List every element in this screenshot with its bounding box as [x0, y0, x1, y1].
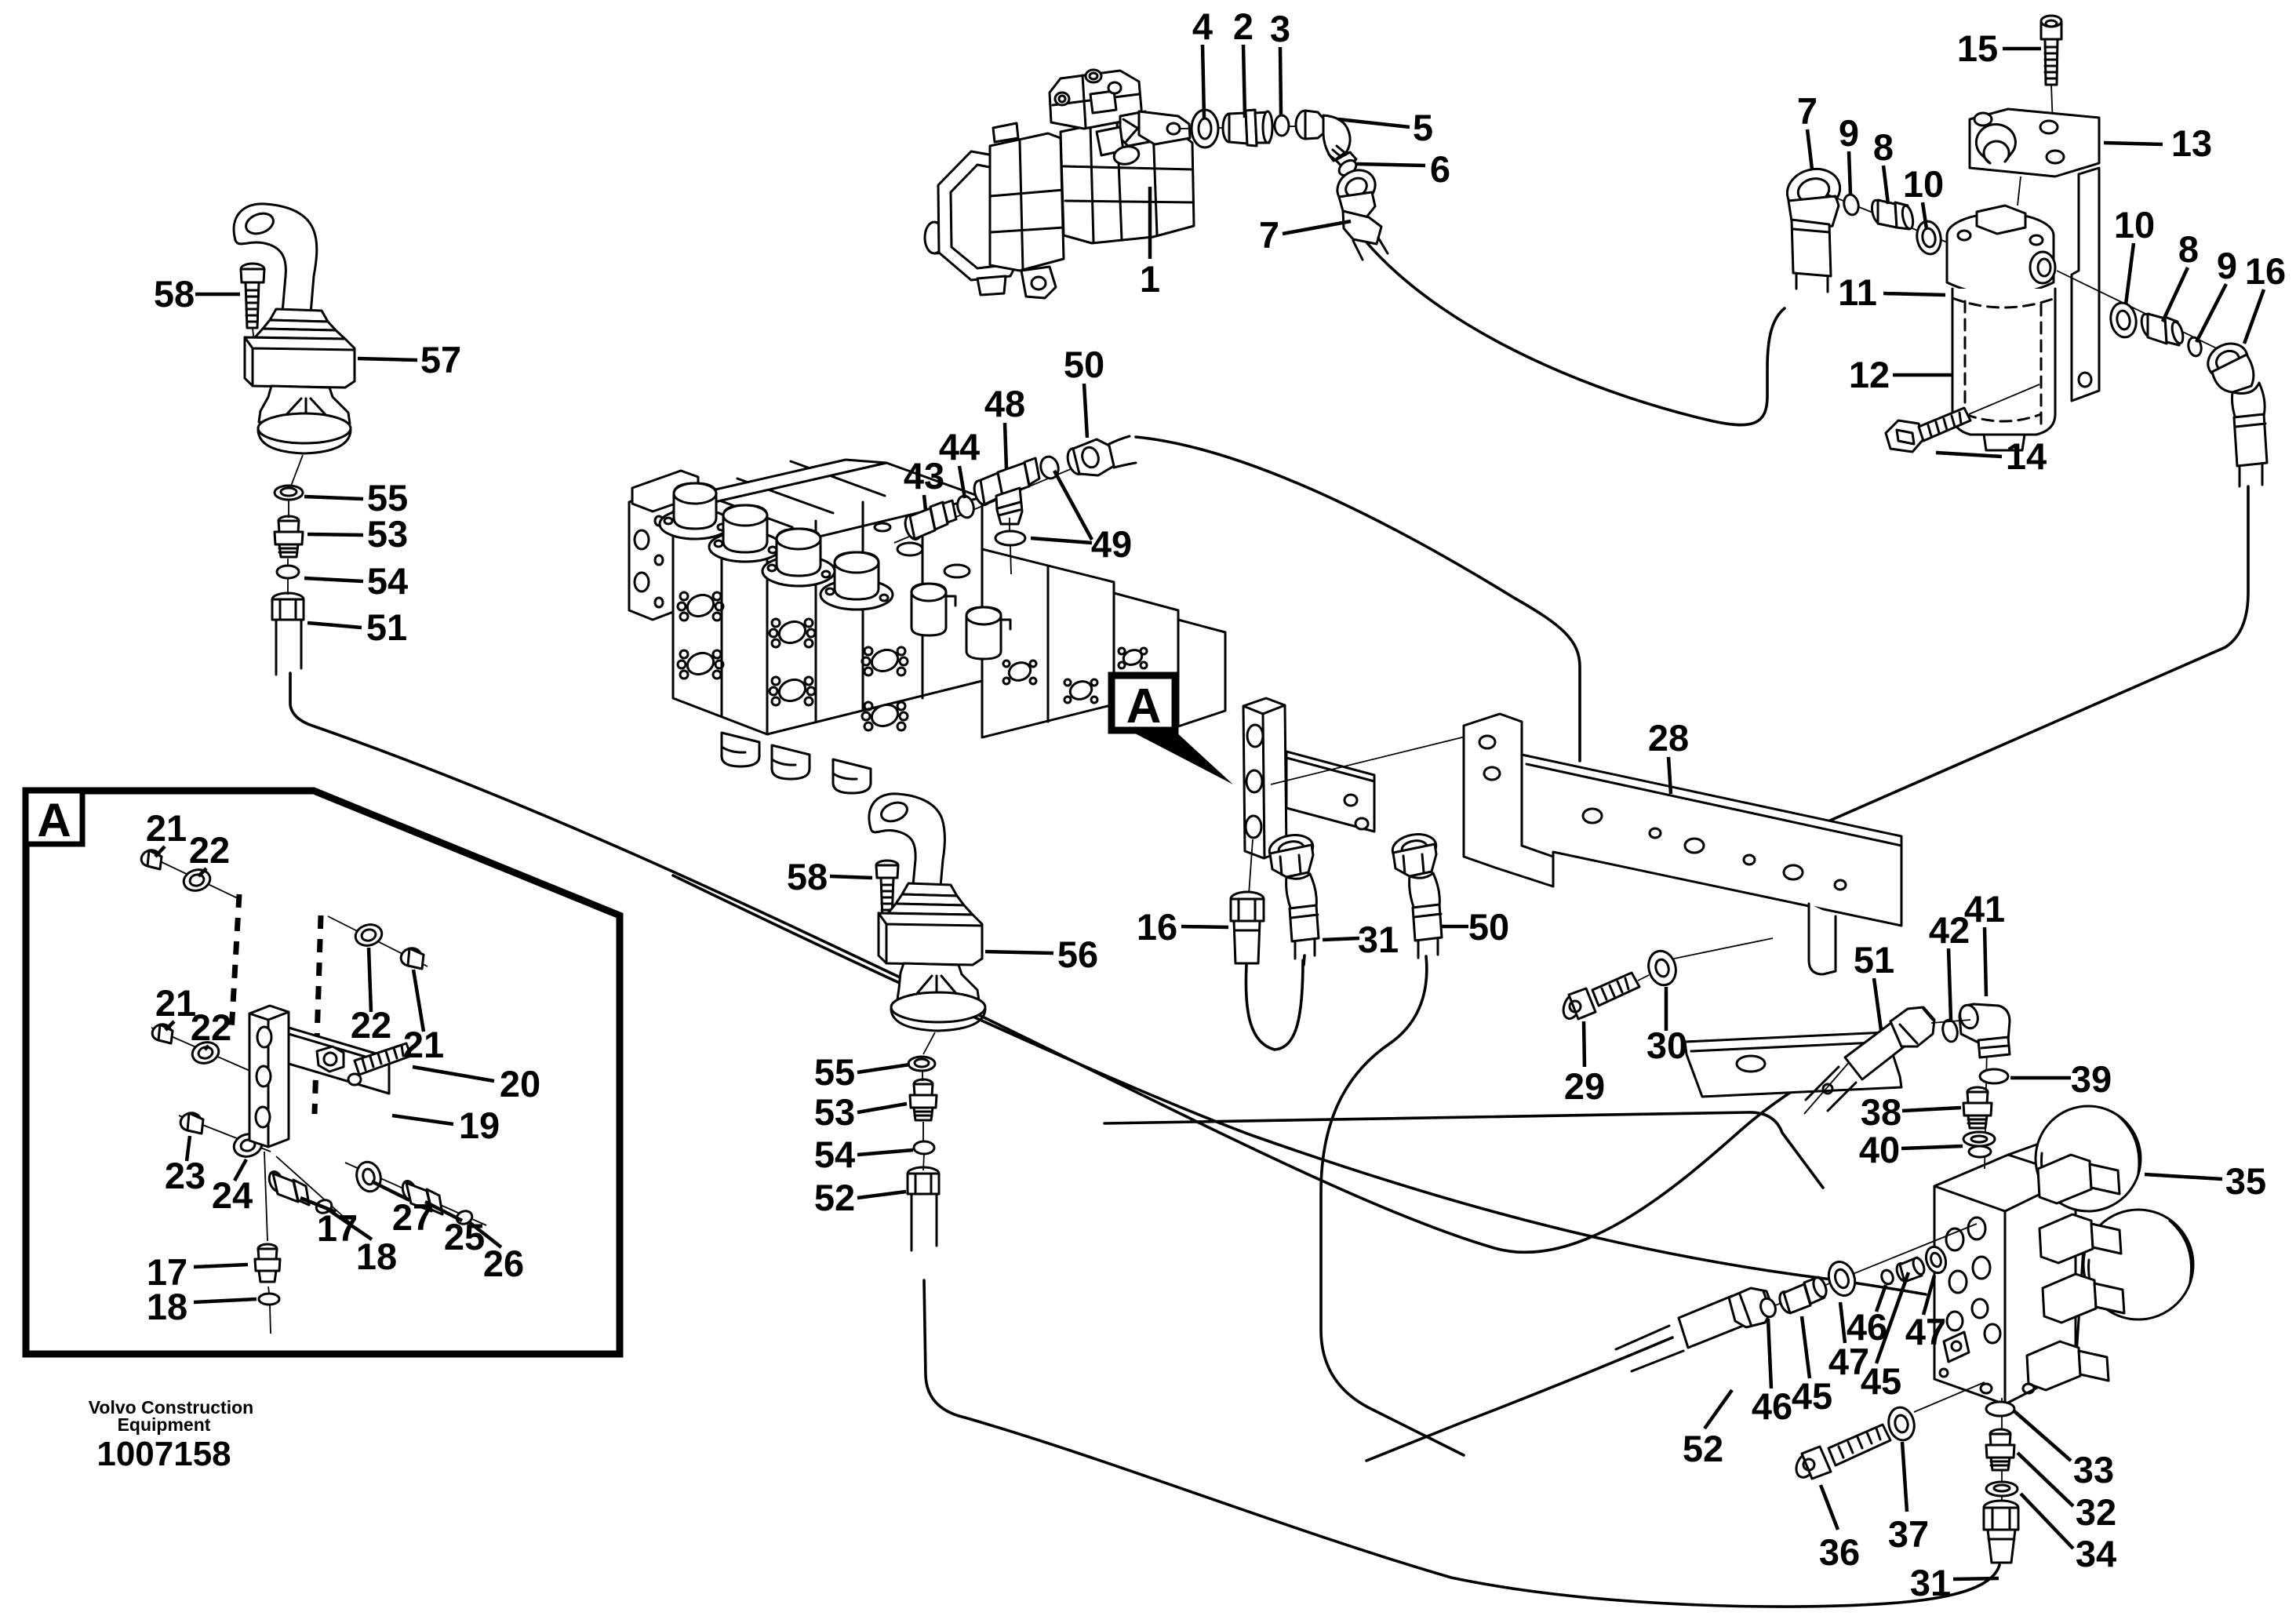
svg-text:34: 34	[2076, 1533, 2116, 1574]
hose 51 long	[290, 673, 1847, 1252]
leader 57	[358, 359, 417, 360]
axis set2	[151, 1028, 259, 1075]
bracket 28 bar	[1522, 755, 1901, 926]
svg-text:8: 8	[1873, 126, 1894, 168]
svg-text:A: A	[1126, 679, 1162, 733]
detail box A square	[26, 791, 82, 846]
joystick 57 boot	[255, 309, 345, 339]
svg-text:57: 57	[420, 339, 461, 380]
hose 52 right short	[1366, 1338, 1672, 1461]
nipple 45 a	[1777, 1276, 1828, 1315]
svg-text:16: 16	[1137, 906, 1177, 948]
leader 55 center	[857, 1065, 910, 1072]
o-ring 33	[1986, 1402, 2014, 1416]
leader 46 lower	[1768, 1319, 1771, 1389]
leader 10 left	[1923, 202, 1927, 229]
o-ring 18 a	[315, 1198, 333, 1215]
svg-text:1: 1	[1140, 258, 1160, 300]
leader 4	[1203, 45, 1204, 118]
hose 16 blocka	[1246, 960, 1303, 1050]
PUMP	[925, 70, 1388, 298]
svg-text:29: 29	[1564, 1065, 1605, 1107]
axis bottom series	[2001, 1398, 2003, 1506]
leader 40	[1901, 1146, 1963, 1148]
nipple 45 b	[1894, 1257, 1927, 1283]
leader block A to bracket hole	[1271, 736, 1468, 784]
fitting 31 valve	[1984, 1501, 2018, 1563]
leader 31 blocka	[1323, 938, 1359, 940]
leader 18 a	[327, 1209, 372, 1239]
valve bank back row	[632, 460, 886, 511]
port cluster 1	[678, 591, 723, 621]
tube 51 right	[1804, 1007, 1934, 1114]
svg-text:21: 21	[146, 807, 187, 849]
leader 49b	[1031, 538, 1092, 543]
leader 26	[468, 1221, 501, 1247]
joystick 57 handle hole	[243, 210, 276, 238]
plug 21 c	[398, 946, 424, 969]
washer 10 left	[1915, 220, 1944, 257]
o-ring 6	[1337, 158, 1359, 179]
washer 22 c	[353, 922, 384, 948]
bracket 13 stem	[2018, 177, 2021, 206]
svg-text:31: 31	[1910, 1562, 1951, 1603]
nipple 43	[902, 500, 956, 541]
leader 16 right	[2244, 289, 2264, 344]
elbow 50 blocka	[1390, 831, 1442, 958]
leader 21 c	[413, 970, 424, 1032]
port cluster 6	[862, 701, 908, 730]
elbow 16 coupling	[2234, 414, 2267, 466]
svg-text:23: 23	[165, 1155, 206, 1196]
washer 47 a	[1825, 1258, 1859, 1299]
valve block 35 top stub	[2008, 1139, 2118, 1177]
bottom cylinder 2	[772, 745, 810, 779]
axis tee row	[894, 455, 1104, 543]
tee 48	[971, 458, 1039, 524]
svg-text:53: 53	[367, 513, 408, 555]
leader 1	[1148, 187, 1152, 259]
svg-text:28: 28	[1648, 717, 1689, 759]
pump 1 mid body	[990, 123, 1064, 271]
bracket 13 hole b	[2040, 121, 2058, 133]
o-ring 44	[955, 494, 977, 519]
leader 7	[1283, 221, 1351, 234]
nipple 8 right	[2139, 313, 2185, 345]
svg-text:14: 14	[2006, 435, 2047, 477]
hose 16 long	[1812, 486, 2248, 828]
washer 55 center	[908, 1057, 935, 1071]
svg-text:4: 4	[1192, 5, 1213, 47]
leader 8 left	[1883, 166, 1888, 204]
leader 37	[1902, 1442, 1907, 1512]
leader 10 right	[2126, 243, 2134, 304]
svg-text:A: A	[37, 794, 71, 846]
washer 10 left inner	[1921, 227, 1937, 248]
leader 5	[1338, 119, 1410, 127]
svg-text:9: 9	[1839, 112, 1859, 154]
leader 27	[372, 1181, 409, 1200]
washer 10 right inner	[2116, 310, 2131, 330]
nipple 17 b	[255, 1244, 280, 1282]
solenoid cap 4	[821, 552, 893, 610]
axis left series	[1737, 1224, 1977, 1321]
svg-text:22: 22	[191, 1006, 231, 1048]
leader 25	[425, 1202, 462, 1221]
svg-text:18: 18	[356, 1236, 397, 1277]
bolt 14	[1886, 384, 2039, 452]
axis top series	[1985, 1004, 1988, 1169]
svg-text:41: 41	[1964, 888, 2005, 930]
elbow 41	[1957, 1003, 2010, 1057]
svg-text:39: 39	[2071, 1058, 2112, 1100]
port cluster 9	[1119, 647, 1147, 668]
svg-text:1007158: 1007158	[96, 1435, 231, 1473]
plug 23	[178, 1111, 203, 1134]
joystick 56 base	[891, 992, 985, 1031]
leader 53 left	[307, 534, 363, 535]
hose 52 tube	[911, 1194, 937, 1250]
svg-text:52: 52	[1683, 1428, 1723, 1469]
svg-text:58: 58	[787, 856, 828, 897]
leader 29	[1584, 1021, 1585, 1067]
filter 11 head	[1947, 206, 2055, 295]
svg-text:32: 32	[2076, 1491, 2116, 1533]
bracket 13 hole a	[1974, 113, 1992, 126]
leader 15	[2003, 47, 2041, 51]
bolt 58 center	[876, 861, 898, 944]
svg-text:16: 16	[2245, 250, 2286, 292]
hose 52 center long	[924, 1280, 1999, 1607]
svg-text:49: 49	[1091, 523, 1132, 565]
hose 50 tee arc	[1136, 437, 1580, 761]
leader 18 b	[194, 1299, 257, 1302]
port cluster 4	[770, 676, 815, 705]
HOSES	[290, 243, 2248, 1607]
pump 1 arm	[1139, 111, 1190, 144]
block A bar	[1243, 698, 1286, 858]
svg-text:7: 7	[1797, 90, 1818, 132]
leader 21 b	[166, 1021, 174, 1030]
svg-text:10: 10	[1903, 163, 1944, 205]
platform diagonal	[673, 875, 1926, 1294]
pump 1 shaft	[925, 217, 987, 253]
svg-text:7: 7	[1259, 214, 1279, 256]
valve bank right module	[982, 549, 1114, 737]
joystick 56 boot	[888, 883, 973, 915]
o-ring 46 b	[1879, 1268, 1894, 1286]
filter 12 bowl	[1952, 289, 2055, 450]
callout A pointer	[1135, 730, 1233, 784]
VALVE35	[1616, 1003, 2193, 1563]
leader 33	[2014, 1411, 2071, 1461]
svg-text:47: 47	[1905, 1311, 1946, 1352]
leader 43	[924, 495, 926, 510]
plug 21 a	[139, 848, 162, 869]
hose 50 stub	[1109, 436, 1136, 468]
leader 48	[1005, 423, 1006, 469]
tube 52 right	[1616, 1288, 1773, 1371]
o-ring 54 left	[277, 566, 299, 578]
leader 2	[1243, 45, 1245, 118]
leader 35	[2145, 1174, 2222, 1179]
plug 21 b	[150, 1022, 173, 1043]
dashed plate line 1	[231, 894, 239, 1032]
svg-text:58: 58	[154, 273, 195, 315]
solenoid cartridge 4	[2027, 1341, 2109, 1390]
washer 30	[1645, 938, 1773, 988]
pump 1 top valve body	[1050, 71, 1142, 129]
leader 13	[2104, 143, 2163, 144]
joystick 57 funnel	[259, 386, 350, 424]
small cap 2	[966, 607, 1010, 659]
o-ring 54 center	[914, 1141, 934, 1154]
leader 7 filter	[1807, 129, 1812, 169]
leader 32	[2018, 1453, 2073, 1506]
svg-text:12: 12	[1849, 354, 1890, 395]
leader 9 left	[1849, 151, 1850, 195]
washer 4	[1192, 110, 1218, 147]
nipple 53 center	[910, 1079, 937, 1120]
solenoid cap 2	[709, 505, 781, 562]
axis 52 hose	[922, 1070, 924, 1170]
joystick 57 handle	[234, 204, 317, 314]
svg-text:46: 46	[1752, 1385, 1792, 1427]
svg-text:38: 38	[1861, 1091, 1901, 1133]
nut 50 tee	[1064, 439, 1114, 476]
washer 22 b	[190, 1039, 221, 1066]
washer 10 right	[2108, 301, 2138, 340]
leader 8 right	[2163, 268, 2188, 322]
svg-text:43: 43	[904, 455, 944, 497]
axis set right	[328, 916, 428, 966]
svg-text:35: 35	[2225, 1160, 2266, 1202]
assembly line under bar	[1526, 767, 1883, 874]
axis vertical block	[264, 1152, 271, 1334]
bottom cylinder 3	[833, 759, 871, 793]
joystick 56 funnel	[897, 963, 979, 1001]
axis filter right	[2057, 271, 2223, 351]
nipple 32	[1986, 1429, 2014, 1470]
bracket 13 top plate	[1970, 109, 2099, 177]
o-ring 42	[1941, 1018, 1959, 1043]
bracket 13 u-slot	[1976, 124, 2015, 163]
small cap 1	[911, 584, 955, 635]
bolt 29	[1560, 973, 1649, 1021]
elbow 7 hose stub	[1796, 275, 1828, 292]
leader 47 upper	[1923, 1276, 1934, 1315]
leader 50 blocka	[1440, 925, 1468, 929]
big cap 35 a	[2036, 1106, 2141, 1211]
svg-text:17: 17	[317, 1207, 358, 1249]
nipple 53 left	[275, 516, 303, 557]
svg-text:9: 9	[2217, 245, 2237, 286]
svg-text:45: 45	[1792, 1375, 1832, 1417]
nipple 8 left	[1870, 199, 1915, 230]
solenoid cartridge 2	[2039, 1214, 2121, 1263]
svg-text:24: 24	[212, 1174, 253, 1216]
joystick 57 base	[258, 413, 351, 453]
fitting 16 blocka	[1231, 839, 1264, 963]
leader 38	[1902, 1108, 1961, 1111]
leader 22 b	[205, 1046, 209, 1050]
joystick 56 handle	[869, 794, 945, 886]
solenoid cartridge 1	[2038, 1155, 2120, 1203]
axis set3	[179, 1116, 271, 1152]
axis 17a 18a	[276, 1156, 351, 1224]
washer 37	[1886, 1405, 1917, 1443]
axis tee bottom	[1010, 518, 1011, 574]
svg-text:55: 55	[814, 1051, 855, 1093]
FILTER	[1782, 16, 2267, 486]
leader 54 left	[304, 578, 363, 581]
valve bank back block	[629, 485, 698, 620]
nipple 17 a	[267, 1170, 309, 1205]
svg-text:53: 53	[814, 1091, 855, 1133]
axis 27 25 26	[345, 1163, 486, 1225]
leader 53 center	[857, 1104, 907, 1112]
washer 22 a	[181, 867, 213, 894]
o-ring 26	[455, 1209, 474, 1226]
elbow 16 coupling band	[2236, 424, 2265, 427]
o-ring 18 b	[259, 1294, 279, 1305]
leader 41	[1985, 927, 1986, 996]
nipple 25	[400, 1179, 442, 1214]
strap 19	[289, 1028, 389, 1094]
leader 28	[1668, 757, 1671, 794]
leader 22 a	[198, 868, 206, 876]
elbow 16 body	[2232, 383, 2265, 419]
pump 1 right body	[1061, 121, 1194, 243]
leader 49a	[1054, 471, 1092, 540]
pump 1 bottom lug	[1021, 267, 1056, 298]
leader 45 upper	[1876, 1272, 1908, 1363]
platform flat line	[1104, 1112, 1823, 1188]
leader 17 a	[300, 1198, 336, 1212]
washer 47 b	[1923, 1244, 1949, 1276]
svg-text:51: 51	[1854, 939, 1894, 981]
o-ring 46 a	[1758, 1297, 1777, 1319]
svg-text:33: 33	[2073, 1449, 2114, 1490]
washer 27	[354, 1159, 384, 1194]
hose 7 pump to filter	[1367, 243, 1785, 425]
o-ring 39	[1980, 1069, 2008, 1083]
svg-text:8: 8	[2178, 228, 2199, 270]
leader 9 right	[2196, 284, 2226, 342]
svg-text:40: 40	[1859, 1129, 1900, 1170]
svg-text:36: 36	[1819, 1531, 1860, 1573]
svg-text:22: 22	[189, 829, 230, 871]
bolt 36	[1792, 1425, 1890, 1480]
elbow 7 filter coupling	[1792, 220, 1831, 276]
o-ring 49b	[995, 531, 1025, 545]
nut 51 left	[272, 593, 304, 620]
port cluster 2	[678, 650, 723, 679]
washers 40	[1963, 1132, 1995, 1157]
elbow 7 filter coupling band	[1793, 229, 1829, 232]
valve block 35 body	[1934, 1155, 2076, 1404]
washer 34	[1986, 1482, 2018, 1496]
svg-text:3: 3	[1270, 8, 1290, 49]
pump 1 front flange	[938, 151, 1028, 295]
leader 36	[1821, 1485, 1838, 1530]
nipple 38	[1963, 1087, 1992, 1128]
leader 47 lower	[1840, 1302, 1845, 1343]
port cluster 7	[1003, 660, 1036, 684]
svg-text:45: 45	[1861, 1360, 1901, 1402]
solenoid cap 3	[762, 529, 835, 586]
leader 31 valve	[1953, 1578, 1999, 1579]
bracket 28 foot plate	[1685, 904, 1901, 1097]
axis filter left	[1828, 195, 1961, 248]
elbow 16 hose stub	[2240, 464, 2262, 486]
leader 42	[1949, 948, 1951, 1020]
svg-text:11: 11	[1838, 271, 1877, 313]
dashed plate line 2	[315, 915, 321, 1114]
leader 58 center	[830, 876, 872, 878]
svg-text:2: 2	[1233, 5, 1254, 47]
elbow 31 blocka	[1267, 832, 1319, 959]
hose 31 blocka	[1304, 955, 1304, 965]
leader 30	[1665, 987, 1668, 1031]
leader 50 tee	[1084, 384, 1087, 438]
BLOCKA	[1112, 675, 1883, 1455]
washer 24	[231, 1131, 264, 1159]
axis 51 hose	[288, 499, 289, 595]
block ports	[1940, 1217, 2034, 1393]
port cluster 3	[770, 618, 815, 647]
leader 17 b	[194, 1265, 248, 1267]
leader 22 c	[369, 948, 371, 1012]
leader 12	[1893, 373, 1952, 377]
port cluster 5	[862, 646, 908, 675]
svg-text:54: 54	[814, 1134, 855, 1175]
leader 44	[959, 466, 965, 498]
svg-text:6: 6	[1430, 148, 1450, 190]
joystick 56 box	[879, 913, 982, 965]
leader 24	[235, 1159, 246, 1181]
leader 52 right	[1705, 1390, 1732, 1429]
svg-text:31: 31	[1358, 919, 1399, 960]
svg-text:50: 50	[1064, 344, 1104, 385]
leader 21 a	[155, 846, 165, 857]
elbow 16 nut	[2203, 337, 2254, 392]
top face ovals	[875, 514, 970, 577]
leader 46 upper	[1876, 1285, 1886, 1312]
LEFTJOY	[234, 204, 355, 675]
leader 54 center	[857, 1150, 913, 1155]
elbow 5	[1296, 111, 1356, 169]
leader 51 right	[1874, 978, 1881, 1030]
svg-text:10: 10	[2114, 204, 2155, 246]
svg-text:48: 48	[984, 383, 1025, 424]
svg-text:26: 26	[483, 1243, 524, 1284]
hose 50 blocka	[1321, 956, 1464, 1455]
svg-text:20: 20	[500, 1063, 540, 1105]
o-ring 49a	[1039, 455, 1061, 481]
bracket 13 hole c	[2047, 151, 2064, 163]
elbow 7 filter nut	[1782, 163, 1845, 231]
hose 51 tube	[276, 620, 301, 675]
solenoid cap 1	[660, 483, 730, 539]
valve bank right small blocks	[1114, 593, 1225, 726]
washer 55 left	[275, 486, 303, 500]
leader 56	[985, 952, 1053, 953]
leader 45 lower	[1802, 1316, 1810, 1378]
svg-text:56: 56	[1057, 934, 1098, 975]
leader 58 left	[195, 293, 240, 297]
svg-text:51: 51	[366, 606, 407, 648]
